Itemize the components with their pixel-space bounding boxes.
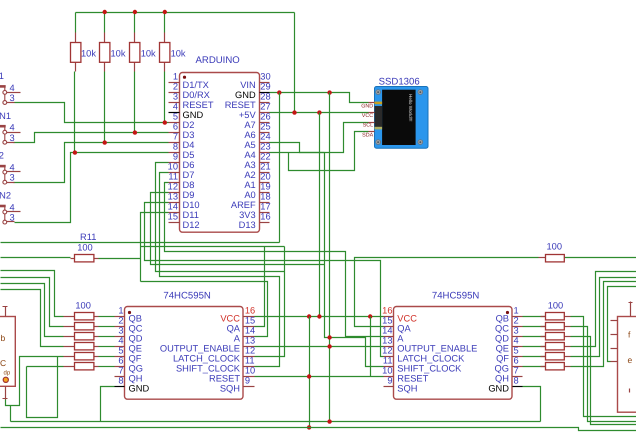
S3 contact pin 4 — [3, 170, 7, 174]
pin 7 stub U1 — [169, 142, 180, 144]
OLED screw hole — [418, 140, 423, 145]
svg-text:3: 3 — [514, 325, 519, 335]
svg-text:13: 13 — [168, 192, 178, 202]
svg-text:22: 22 — [260, 152, 270, 162]
RN1 r6 body — [75, 363, 94, 370]
svg-text:4: 4 — [514, 335, 519, 345]
svg-text:SCL: SCL — [363, 123, 374, 129]
svg-text:1: 1 — [173, 72, 178, 82]
wire bottom U row6-row5 — [27, 357, 58, 418]
svg-text:2: 2 — [0, 151, 4, 161]
svg-text:QF: QF — [496, 354, 509, 364]
svg-text:14: 14 — [245, 325, 255, 335]
RN2 r2 body — [546, 323, 565, 330]
wire seg feed row1 — [1, 271, 64, 317]
svg-text:3: 3 — [10, 173, 15, 183]
svg-text:24: 24 — [260, 132, 270, 142]
svg-text:D6: D6 — [183, 160, 195, 170]
pin 4 stub U1 — [169, 112, 180, 114]
pin 3 stub S4 — [7, 221, 15, 223]
svg-text:27: 27 — [260, 102, 270, 112]
junction D2-R4 — [163, 120, 167, 124]
pin 3 stub U2 — [115, 336, 125, 338]
svg-text:29: 29 — [260, 82, 270, 92]
svg-text:N2: N2 — [0, 191, 11, 201]
RN1 r3 left lead — [64, 336, 75, 338]
svg-text:SQH: SQH — [397, 384, 417, 394]
junction bus-R4 — [163, 10, 167, 14]
svg-text:3: 3 — [10, 133, 15, 143]
svg-text:QH: QH — [129, 374, 143, 384]
RN2 r2 right lead — [565, 326, 571, 328]
wire bus to R4 top — [164, 13, 166, 33]
svg-text:13: 13 — [245, 335, 255, 345]
wire A4 riser to U3 SHIFT_CLOCK — [325, 153, 384, 367]
junction D5-R1 — [73, 150, 77, 154]
wire SCL to A5 — [270, 123, 369, 153]
pin 15 stub U2 — [244, 326, 255, 328]
svg-text:D1/TX: D1/TX — [183, 80, 209, 90]
OLED pad block — [375, 106, 383, 127]
svg-text:8: 8 — [118, 375, 123, 385]
OLED pin VCC stub — [369, 112, 375, 114]
wire stack1 row5 to U2 — [99, 356, 115, 358]
DS1 top pin tick — [3, 306, 8, 308]
wire D10 net to U3 LATCH_CLOCK — [145, 203, 384, 357]
S1 contact pin 3 — [3, 101, 7, 105]
OLED pin GND stub — [369, 102, 375, 104]
pin 5 stub U2 — [115, 356, 125, 358]
junction +5V chip riser — [317, 110, 321, 114]
pin 4 stub S2 — [7, 132, 21, 134]
wire U3 to stack2 row4 — [523, 346, 546, 348]
svg-text:QC: QC — [129, 324, 143, 334]
pin 11 stub U3 — [384, 366, 394, 368]
svg-text:28: 28 — [260, 92, 270, 102]
RN2 r6 right lead — [565, 366, 571, 368]
wire seg feed row3 — [1, 284, 64, 337]
svg-text:A2: A2 — [244, 170, 255, 180]
wire D11 riser — [141, 213, 169, 282]
svg-text:VCC: VCC — [362, 113, 373, 119]
pin 10 stub U1 — [169, 172, 180, 174]
RN1 r1 body — [75, 313, 94, 320]
svg-text:25: 25 — [260, 122, 270, 132]
wire stack2 row6 to right edge — [571, 282, 636, 367]
svg-text:16: 16 — [382, 305, 392, 315]
pin 12 stub U2 — [244, 356, 255, 358]
RN1 r4 body — [75, 343, 94, 350]
pin 4 stub S1 — [7, 92, 21, 94]
svg-text:3V3: 3V3 — [239, 210, 256, 220]
svg-text:ARDUINO: ARDUINO — [196, 55, 240, 66]
DS2 left pin y=361.5 — [611, 361, 618, 363]
svg-text:20: 20 — [260, 172, 270, 182]
wire R1 to D5 row — [74, 72, 76, 153]
RN2 r2 left lead — [541, 326, 546, 328]
svg-text:QH: QH — [495, 374, 509, 384]
svg-text:12: 12 — [168, 182, 178, 192]
pin 22 stub U1 — [260, 162, 270, 164]
wire +5V riser to bottom rail — [309, 317, 311, 428]
svg-text:74HC595N: 74HC595N — [432, 291, 480, 302]
svg-text:4: 4 — [10, 123, 15, 133]
RN1 r5 right lead — [94, 356, 99, 358]
wire branch QA level — [141, 246, 285, 248]
wire stack2 row4 to right edge — [571, 272, 636, 347]
pin 29 stub U1 — [260, 92, 270, 94]
svg-text:9: 9 — [387, 375, 392, 385]
svg-text:QA: QA — [227, 324, 241, 334]
svg-text:R11: R11 — [80, 232, 96, 242]
junction OE-GND riser — [327, 344, 331, 348]
wire VCC row U2-U3 — [255, 316, 384, 318]
svg-text:RESET: RESET — [209, 374, 240, 384]
wire R4 to D2 row — [164, 72, 166, 123]
wire branch to U2 A — [141, 282, 268, 337]
svg-text:17: 17 — [260, 202, 270, 212]
svg-text:19: 19 — [260, 182, 270, 192]
pin 4 stub U2 — [115, 346, 125, 348]
resistor R13 — [539, 257, 546, 259]
svg-text:5: 5 — [173, 112, 178, 122]
svg-text:D12: D12 — [183, 220, 200, 230]
svg-text:A: A — [397, 334, 404, 344]
junction +5V rail — [307, 425, 311, 429]
wire GND pin29 to OLED GND — [270, 93, 369, 103]
svg-text:21: 21 — [260, 162, 270, 172]
svg-text:15: 15 — [168, 212, 178, 222]
RN2 r6 body — [546, 363, 565, 370]
pin 6 stub U3 — [513, 366, 523, 368]
OLED pin SDA stub — [369, 131, 375, 133]
pin 21 stub U1 — [260, 172, 270, 174]
pin 18 stub U1 — [260, 202, 270, 204]
wire BTN D pin3 to D5 — [15, 153, 169, 223]
svg-text:12: 12 — [382, 345, 392, 355]
resistor R4 top lead — [164, 33, 166, 43]
wire bus down to +5V row — [294, 13, 296, 113]
wire bus to R2 top — [104, 13, 106, 33]
junction bus-R3 — [133, 10, 137, 14]
resistor R1 top lead — [75, 33, 77, 43]
svg-text:A7: A7 — [244, 120, 255, 130]
wire +5V top bus — [76, 12, 295, 14]
wire U3 to stack2 row1 — [523, 316, 546, 318]
DS2 inner pin — [629, 389, 631, 393]
OLED pad GND — [375, 102, 383, 105]
svg-text:100: 100 — [547, 242, 563, 252]
svg-text:10k: 10k — [81, 48, 96, 58]
svg-text:9: 9 — [245, 375, 250, 385]
svg-text:D0/RX: D0/RX — [183, 90, 210, 100]
pin 16 stub U1 — [260, 222, 270, 224]
OLED screw hole — [376, 140, 381, 145]
svg-text:10k: 10k — [171, 48, 186, 58]
resistor R3 body — [130, 43, 140, 63]
wire stack1 row6 to U2 — [99, 366, 115, 368]
pin 3 stub U1 — [169, 102, 180, 104]
svg-text:3: 3 — [10, 93, 15, 103]
svg-text:A1: A1 — [244, 180, 255, 190]
wire bus to R3 top — [134, 13, 136, 33]
wire +5V riser to VCC row — [319, 113, 321, 317]
svg-text:D11: D11 — [183, 210, 199, 220]
wire R11 left lead — [1, 257, 71, 259]
pin 2 stub U2 — [115, 326, 125, 328]
RN1 r4 right lead — [94, 346, 99, 348]
svg-text:VCC: VCC — [220, 314, 240, 324]
pin 10 stub U2 — [244, 376, 255, 378]
svg-text:5: 5 — [118, 345, 123, 355]
S3 actuator line — [4, 166, 6, 181]
svg-text:5: 5 — [514, 345, 519, 355]
S4 body bar — [0, 205, 6, 208]
svg-text:6: 6 — [173, 122, 178, 132]
pin 23 stub U1 — [260, 152, 270, 154]
wire U3 QA to R13 — [355, 258, 539, 327]
svg-text:D5: D5 — [183, 150, 195, 160]
svg-text:13: 13 — [382, 335, 392, 345]
wire U3 to stack2 row3 — [523, 336, 546, 338]
wire row6 left lead — [27, 366, 64, 368]
svg-text:1: 1 — [514, 305, 519, 315]
svg-text:D10: D10 — [183, 200, 200, 210]
OLED pad SCL — [375, 127, 383, 130]
svg-text:2: 2 — [173, 82, 178, 92]
S3 body bar — [0, 165, 6, 168]
junction VCC right resistor riser — [368, 314, 372, 318]
svg-text:16: 16 — [260, 212, 270, 222]
RN1 r6 right lead — [94, 366, 99, 368]
DS1 body — [0, 317, 15, 387]
wire stack2 row2 to right edge — [571, 327, 636, 422]
S4 actuator line — [4, 206, 6, 221]
wire stack1 row4 to U2 — [99, 346, 115, 348]
pin 1 stub U1 — [169, 82, 180, 84]
svg-text:LATCH_CLOCK: LATCH_CLOCK — [397, 354, 465, 364]
pin 9 stub U2 — [244, 386, 255, 388]
U1 pin1 mark — [183, 76, 186, 79]
wire OUTPUT_ENABLE U2-U3 — [255, 346, 384, 348]
pin 25 stub U1 — [260, 132, 270, 134]
svg-text:3: 3 — [173, 92, 178, 102]
pin 19 stub U1 — [260, 192, 270, 194]
svg-text:15: 15 — [245, 315, 255, 325]
junction on GND riser — [327, 335, 331, 339]
S2 actuator line — [4, 126, 6, 141]
svg-text:4: 4 — [10, 83, 15, 93]
RN1 r1 left lead — [64, 316, 75, 318]
svg-text:D7: D7 — [183, 170, 195, 180]
svg-text:b: b — [1, 333, 6, 343]
RN2 r6 left lead — [541, 366, 546, 368]
resistor R4 bottom lead — [164, 63, 166, 72]
junction GND riser B — [327, 90, 331, 94]
pin 27 stub U1 — [260, 112, 270, 114]
junction GND riser A — [277, 90, 281, 94]
wire A4 row — [270, 152, 325, 154]
wire BTN B pin3 to D3 — [14, 133, 169, 143]
S1 body bar — [0, 85, 6, 88]
wire R3 to D3 row — [134, 72, 136, 133]
pin 17 stub U1 — [260, 212, 270, 214]
svg-text:10: 10 — [382, 365, 392, 375]
svg-text:A3: A3 — [244, 160, 255, 170]
pin 11 stub U1 — [169, 182, 180, 184]
svg-text:GND: GND — [129, 384, 150, 394]
DS2 left pin y=348.0 — [611, 348, 618, 350]
resistor R3 top lead — [134, 33, 136, 43]
pin 1 stub U2 — [115, 316, 125, 318]
wire D8 net to U3 A — [165, 183, 384, 337]
pin 30 stub U1 — [260, 82, 270, 84]
svg-text:SDA: SDA — [362, 132, 373, 138]
wire stack1 row1 to U2 — [99, 316, 115, 318]
pin 3 stub S1 — [7, 102, 15, 104]
pin 3 stub S3 — [7, 182, 15, 184]
RN1 r5 left lead — [64, 356, 75, 358]
svg-text:QD: QD — [495, 334, 509, 344]
OLED screw hole — [418, 90, 423, 95]
wire row5 to 7seg pin — [6, 357, 64, 406]
wire D7 net to U2 SHIFT_CLOCK — [160, 173, 280, 367]
pin 8 stub U3 — [513, 386, 523, 388]
svg-text:D3: D3 — [183, 130, 195, 140]
wire seg feed row4 — [1, 290, 64, 347]
junction VCC arduino riser — [317, 314, 321, 318]
wire D9 net level — [151, 193, 325, 265]
svg-text:D2: D2 — [183, 120, 195, 130]
pin 14 stub U1 — [169, 212, 180, 214]
svg-text:+5V: +5V — [239, 110, 257, 120]
svg-text:11: 11 — [245, 355, 255, 365]
S1 actuator line — [4, 86, 6, 101]
RN2 r3 right lead — [565, 336, 571, 338]
svg-text:10: 10 — [245, 365, 255, 375]
svg-text:RESET: RESET — [183, 100, 214, 110]
svg-text:15: 15 — [382, 315, 392, 325]
RN2 r1 body — [546, 313, 565, 320]
R13 body — [546, 255, 565, 262]
wire R2 to D4 row — [104, 72, 106, 143]
wire stack1 row2 to U2 — [99, 326, 115, 328]
resistor R2 top lead — [104, 33, 106, 43]
svg-text:11: 11 — [168, 172, 178, 182]
wire U3 to stack2 row5 — [523, 356, 546, 358]
OLED screw hole — [376, 90, 381, 95]
U3 pin1 mark — [506, 311, 509, 314]
pin 3 stub U3 — [513, 336, 523, 338]
svg-text:QF: QF — [129, 354, 142, 364]
shift register U2 74HC595N — [125, 307, 244, 400]
pin 7 stub U3 — [513, 376, 523, 378]
svg-text:74HC595N: 74HC595N — [163, 291, 211, 302]
wire stack2 row1 to right edge — [571, 317, 636, 417]
resistor R11 — [71, 258, 75, 260]
wire U2 GND drop — [101, 387, 115, 422]
pin 26 stub U1 — [260, 122, 270, 124]
pin 6 stub U2 — [115, 366, 125, 368]
wire +5V bottom rail — [1, 428, 636, 431]
U2 pin1 mark — [128, 311, 131, 314]
wire seg feed row2 — [1, 278, 64, 327]
pin 2 stub U1 — [169, 92, 180, 94]
pin 15 stub U1 — [169, 222, 180, 224]
MCU ARDUINO U1 — [180, 73, 260, 233]
svg-text:10k: 10k — [111, 48, 126, 58]
RN1 r2 left lead — [64, 326, 75, 328]
svg-text:GND: GND — [183, 110, 204, 120]
svg-text:VIN: VIN — [240, 80, 256, 90]
shift register U3 74HC595N — [394, 307, 513, 400]
RN2 r3 body — [546, 333, 565, 340]
svg-text:9: 9 — [173, 152, 178, 162]
S4 contact pin 4 — [3, 210, 7, 214]
RN1 r4 left lead — [64, 346, 75, 348]
resistor R1 body — [71, 43, 81, 63]
wire BTN A pin3 to D2 — [15, 103, 169, 123]
pin 16 stub U3 — [384, 316, 394, 318]
junction VCC rail riser — [307, 314, 311, 318]
RN1 r5 body — [75, 353, 94, 360]
svg-text:OUTPUT_ENABLE: OUTPUT_ENABLE — [397, 344, 477, 354]
pin 8 stub U1 — [169, 152, 180, 154]
resistor R2 body — [100, 43, 110, 63]
svg-text:D9: D9 — [183, 190, 195, 200]
pin 13 stub U1 — [169, 202, 180, 204]
S2 body bar — [0, 125, 6, 128]
wire GND line under arduino — [1, 242, 280, 244]
pin 13 stub U3 — [384, 346, 394, 348]
RN2 r4 left lead — [541, 346, 546, 348]
svg-text:QB: QB — [129, 314, 142, 324]
RN2 r3 left lead — [541, 336, 546, 338]
RN1 r2 body — [75, 323, 94, 330]
wire GND rail left up — [10, 406, 12, 422]
svg-text:C: C — [0, 358, 6, 368]
RN1 r2 right lead — [94, 326, 99, 328]
pin 4 stub U3 — [513, 346, 523, 348]
pin 6 stub U1 — [169, 132, 180, 134]
wire +5V pin27 to OLED VCC — [270, 112, 369, 114]
svg-text:SHIFT_CLOCK: SHIFT_CLOCK — [176, 364, 241, 374]
svg-text:QE: QE — [129, 344, 142, 354]
resistor R4 body — [160, 43, 170, 63]
wire riser to U2 LATCH_CLOCK — [255, 247, 285, 357]
svg-text:D8: D8 — [183, 180, 195, 190]
wire stack1 row3 to U2 — [99, 336, 115, 338]
resistor R2 bottom lead — [104, 63, 106, 72]
svg-text:LATCH_CLOCK: LATCH_CLOCK — [173, 354, 241, 364]
wire U3 to stack2 row6 — [523, 366, 546, 368]
resistor R1 bottom lead — [75, 63, 77, 72]
wire R11 right lead — [99, 258, 141, 260]
svg-text:7: 7 — [118, 365, 123, 375]
pin 4 stub S3 — [7, 171, 21, 173]
pin 12 stub U3 — [384, 356, 394, 358]
svg-text:26: 26 — [260, 112, 270, 122]
svg-text:1: 1 — [0, 71, 4, 81]
DS2 left pin y=321.0 — [611, 320, 618, 322]
DS1 dp dot — [3, 377, 8, 382]
svg-text:VCC: VCC — [397, 314, 417, 324]
pin 3 stub S2 — [7, 142, 15, 144]
svg-text:11: 11 — [383, 355, 393, 365]
svg-text:QD: QD — [129, 334, 143, 344]
svg-text:OUTPUT_ENABLE: OUTPUT_ENABLE — [160, 344, 240, 354]
S1 contact pin 4 — [3, 91, 7, 95]
